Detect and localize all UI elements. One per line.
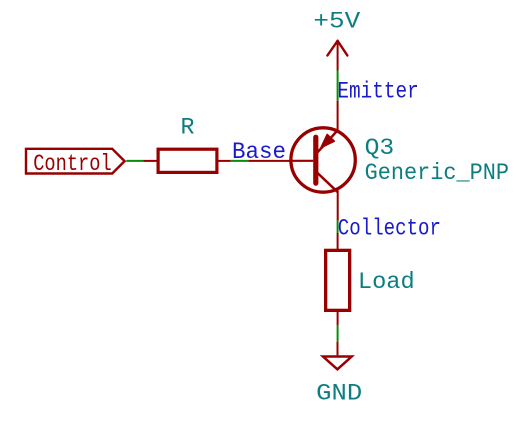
resistor R body [158,149,217,172]
power symbol +5V [327,41,347,70]
svg-text:Collector: Collector [338,215,441,241]
resistor R pin 1 [143,160,158,162]
wire Load to GND [337,325,339,342]
svg-text:Load: Load [358,269,415,295]
global label Control [26,149,125,174]
resistor Load pin 1 [337,233,339,250]
transistor Q3 pin base [248,160,290,162]
svg-text:Control: Control [33,151,112,177]
wire emitter (+5V to Q3) [337,70,339,101]
resistor R pin 2 [217,160,231,162]
wire R to Q3 base [231,160,249,162]
svg-text:GND: GND [316,381,362,407]
resistor Load body [326,250,350,310]
transistor Q3 pin collector [337,191,339,221]
svg-text:Generic_PNP: Generic_PNP [365,160,509,186]
transistor Q3 body [289,128,355,192]
resistor Load pin 2 [337,311,339,326]
svg-text:Q3: Q3 [365,135,395,161]
transistor Q3 emitter arrow (PNP) [321,135,334,148]
wire Q3 to Load [337,221,339,233]
svg-text:Emitter: Emitter [337,79,418,105]
wire Control to R [126,160,143,162]
svg-text:Base: Base [232,139,286,165]
ground symbol GND [337,342,339,356]
transistor Q3 pin emitter [337,101,339,131]
svg-text:+5V: +5V [313,9,360,35]
svg-text:R: R [181,114,195,140]
